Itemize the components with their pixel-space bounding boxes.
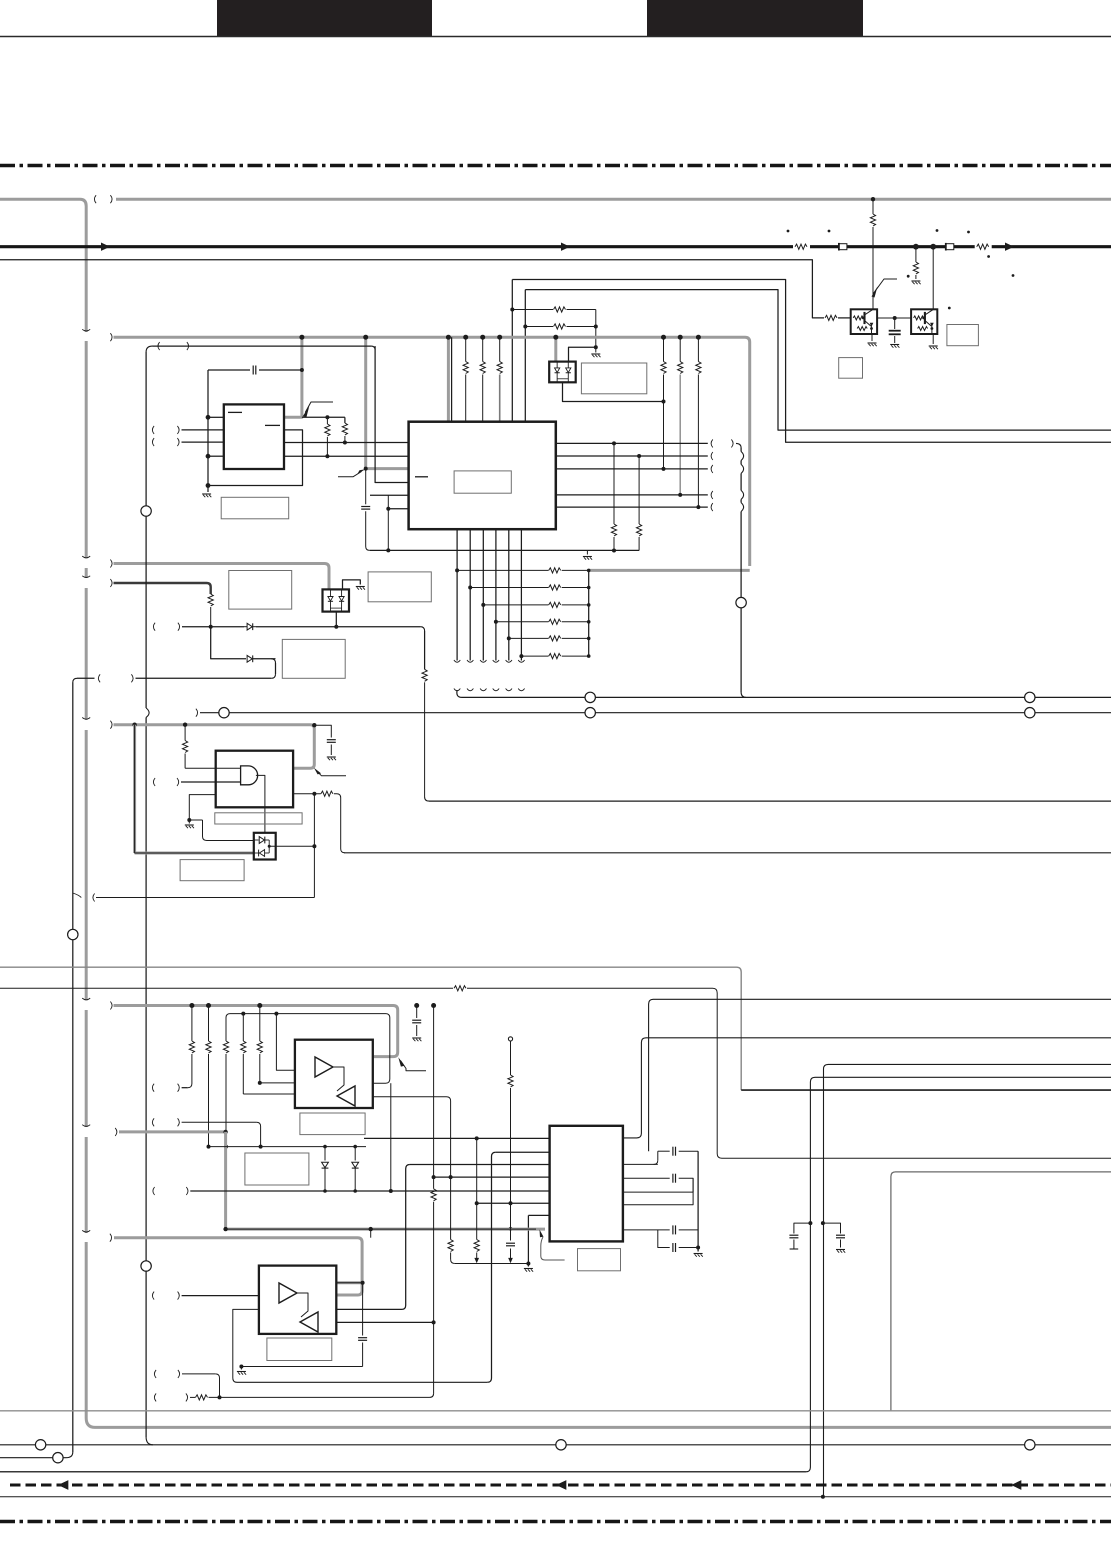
vertical link wire to connector stub [313,794,315,898]
label box for Q2 [839,358,863,379]
gray left vertical bus trunk [85,341,88,559]
wire y988 with resistor R22 [0,987,453,989]
junction dot diode row / U6 [334,625,338,629]
IC U1 [224,404,284,469]
junction dot R14 bottom [325,454,329,458]
junction dots on bus B2 [299,335,304,340]
feedback resistor R21 wire [293,793,321,795]
gray drop from B7 to bus B8 [224,1132,227,1229]
U2 right row 2 wire [556,455,708,457]
loop A to rail [679,1150,698,1152]
junction dot row3/R11 [662,467,666,471]
op-amp IC U9 [259,1266,336,1334]
U1 pin stub row 4 [208,455,224,457]
wire y1090 right portion [741,1089,1111,1091]
row wire into U3 pin 1 [364,1137,550,1139]
connector circle rail a [35,1440,45,1450]
IC U2 (main microcontroller) [409,422,556,530]
junction dot diode DA [323,1145,327,1149]
connector line L1 [457,690,1111,697]
wire row B from IC U2 top to right column [525,290,1111,431]
thick signal line (net P) across page [0,245,1111,248]
junction dot R27 bottom [258,1081,262,1085]
junction dot row2/R17 [637,454,641,458]
U2 bottom pin ladder [454,529,589,662]
wire y1064 from right edge down to bottom rail [824,1064,1111,1496]
arrow on dashed bus right [1011,1480,1021,1490]
loop wire from U8 pin down to row 5 [390,1083,392,1191]
AND gate output to photocoupler U7 [256,775,265,833]
resistor R4 vertical from bus B1 [872,199,874,214]
row wire into U3 at y1203 [477,1202,550,1204]
black connector rail y1445 [0,1444,1111,1446]
junction dot row4/R28 [449,1175,453,1179]
gray bus B5 with corner down to AND gate [110,721,112,729]
wire gray-node row right [302,416,345,418]
gray board line y1172 with corner down [891,1172,1111,1411]
bus B2 start hook [110,333,112,341]
junction dot pull-up rail bottom [594,345,598,349]
vertical return wire from row1 with hops [731,439,733,447]
pull-up resistor R7 [525,326,553,328]
wire thin net S from left edge to transistor Q2 input [0,260,824,318]
connector circle rail c [1025,1440,1035,1450]
fuse F1 in net P [839,244,847,250]
wire linking Q2 and Q3 bases [877,317,911,319]
row C wire [623,1178,693,1205]
label box for U4 [215,813,302,824]
ground for U3 pin 6 [527,1264,529,1267]
junction dot pin6 gnd node [526,1262,530,1266]
ground under U1 left rail [202,493,211,495]
junction of pull-up rail [595,310,597,348]
feed wire corner into U2 left pin 4 [375,346,409,482]
wire Q3 emitter to ground [932,334,934,344]
resistor R15 vertical [344,417,346,423]
gray bus B6 with corner into op-amp U8 [110,1002,112,1010]
connector circle rail b [556,1440,566,1450]
arrow on dashed bus left [58,1480,68,1490]
pull resistor R8 to U2 top pin 8 [465,337,467,361]
junction dot between Q2 and Q3 [893,316,897,320]
U9 output wire [336,1321,433,1323]
arrow on net P at left [101,243,110,251]
pull resistor R13 to U2 row 5 [697,337,699,361]
capacitor rail of U3 [697,1151,699,1247]
junction dot B7 / R25 [223,1130,227,1134]
input connector wire to R23 [152,1084,154,1092]
resistor R16 from row1 down to rail [613,443,615,524]
photocoupler U7 [254,833,276,860]
diode D3 [324,1147,326,1161]
left black trunk net V2 [72,683,74,930]
junction dot net P / Q2 feed [913,244,919,250]
junction dot rail bottom [696,1246,700,1250]
junction dot row/column 476 [475,1201,479,1205]
pull resistor R9 to U2 top pin 9 [482,337,484,361]
junction dot pin7 node [361,1281,365,1285]
label box for U8 [300,1113,365,1135]
U2 right row 4 wire [556,494,708,496]
junction dots on collector rail [587,569,591,573]
gray stub on U9 pin 7 [336,1281,362,1284]
connector circle L2 a [219,708,229,718]
resistor R19 [422,669,427,681]
input connector wire tap to diode row [152,1118,154,1126]
diode row corner down to resistor R19 [420,627,424,631]
junction dots on U1 left rail [206,415,211,420]
junction dot R15 bottom [343,441,347,445]
resistor R18 under bus B4 [208,594,213,606]
ground under Q2 [868,342,877,344]
junction dot diode row / R18 [209,625,213,629]
cap column down from pin7 node [362,1283,364,1336]
input wire with resistor R31 [186,1393,188,1401]
secondary diode branch wire [211,627,246,659]
column with test point circle and resistor R30 [508,1037,512,1041]
junction dots on bus B6 [189,1003,194,1008]
U3 left pin 6 wire [528,1214,549,1216]
label box lower diode branch [282,639,345,678]
wire y999 from right edge down to U3 capacitors [649,999,1111,1151]
pull resistor R10 to U2 top pin 10 [499,337,501,361]
arrow on net P at right [1005,243,1014,251]
resistor R26 column [241,1012,245,1016]
junction dot tap / diode wire [259,1145,263,1149]
wire to ground spur [241,1366,362,1368]
U7 output wire [269,845,314,847]
U2 right row 5 wire [556,506,708,508]
wire y1038 from right edge into U3 [623,1038,1111,1138]
pull resistor R11 feeding photocoupler return [663,337,665,361]
row wire into U3 pin 2 from column V4 [496,1151,550,1153]
U3 pin 6 ground branch [527,1215,529,1263]
capacitor C6 from bus B6 to ground [416,1006,418,1019]
U1 right pin loop to left rail [208,430,303,486]
U2 right row 3 wire [556,468,708,470]
wire Q2 emitter to ground [871,334,873,341]
connector circle on V2 [68,929,78,939]
connector pin hooks above L1 [454,689,460,691]
gray drop from B2 into IC U1 right side [285,337,302,417]
connector circle on net V1 [141,506,151,516]
black wire U9 pin 7 to cap column [336,1282,362,1284]
net V1 lower segment [145,717,147,1262]
stub B8 to B9 [370,1229,372,1238]
ground under R5 [911,280,920,282]
junction dot row4/V5 [432,1175,436,1179]
wire pull-up rail to photocoupler U5 cathode [569,347,596,361]
junction dot row5/R13 [696,505,700,509]
resistor R2 in net P [975,241,992,252]
junction dot decoupling pair right [821,1221,825,1225]
long output wire to right edge (row y801) [425,797,429,801]
branch wire to lower label [253,658,276,660]
junction dot B5 corner [312,723,316,727]
wire into U2 left pin 6 [388,508,408,510]
dashed return bus with arrows [10,1484,1111,1487]
wire U1 right output row to U2 with junctions [284,442,409,444]
resistor R20 from B5 to AND gate U4 [184,725,186,741]
AND gate IC U4 [216,751,293,808]
black wire under B8 [226,1228,536,1230]
junction dot row4/R12 [678,493,682,497]
U4 ground leg [189,795,215,820]
junction dot B5 / gray drop [132,723,136,727]
wire long vertical feed to U2 pin from top-left [153,345,372,347]
gray board outline y1411 [0,1410,1111,1412]
connector circle on return wire [736,597,746,607]
capacitor C12 [358,1337,367,1339]
black wire under gray drop [135,725,254,853]
junction dot B5 / R20 [183,723,187,727]
junction dot on bus B1 feeding R4 [871,197,875,201]
junction dot row1/column [475,1136,479,1140]
input connector wire to U1 pin 2 [152,426,154,434]
junction dot B8 left [223,1227,227,1231]
label box between B3 and B4 [229,571,292,610]
resistor R17 from row2 down to rail [638,456,640,524]
diode D4 [354,1147,356,1161]
pointer arrow to gray entry node [338,472,362,477]
junction dot pull-up row 2 [523,325,527,329]
transistor Q3 (digital transistor) [911,309,937,334]
label box right of U2 lower [368,572,431,602]
gray drop from B2 into IC U2 left side [366,337,409,468]
rail wire y550 [370,549,639,551]
dark feed bus B4 [110,579,112,587]
vertical wire into U2 top pin 12 [524,290,526,422]
junction dot cap column B8 [509,1227,513,1231]
crystal loop row A [623,1163,658,1165]
wire C2 to gray drop node [259,369,302,371]
gray bottom bus with corner from left trunk [86,1418,1111,1427]
junction dot net P / Q3 feed [930,244,936,250]
resistor R3 at Q2 input [825,315,837,320]
wire from node into Q2 base [872,294,874,309]
arrow on dashed bus middle [556,1480,566,1490]
resistor R14 vertical [326,417,328,424]
resistor R5 from net P junction to ground [915,247,917,262]
thin rail y1497 [0,1496,1111,1498]
resistor R1 in net P [793,241,810,252]
gray bus B7 short [115,1128,117,1136]
column V3 wire [336,1165,410,1310]
label box for U5 [581,363,646,394]
diode ladder wire y1147 [209,1146,367,1148]
input connector wire pair lower [178,1370,180,1378]
wire from U1 net to decoupling capacitor C2 [208,369,250,371]
pointer arrow to U1 right gray node [305,402,333,413]
hop of net V1 over line L2 [146,708,149,717]
capacitor C5 [823,1223,841,1233]
pointer arrow at U8 gray corner [401,1061,427,1071]
junction dot V5 / U9 output [432,1320,436,1324]
dash-dot section border top [0,164,1111,168]
gray drop from B2 to photocoupler U5 [554,337,557,361]
ground G9 [240,1367,242,1370]
capacitor C13 under gray entry [365,469,367,505]
capacitor C7 [672,1147,674,1156]
dash-dot section border bottom [0,1520,1111,1523]
diode D1 [244,621,256,632]
junction dot rail/column [821,1495,825,1499]
input connector wire to U1 pin 3 [152,438,154,446]
wire row A from IC U2 top to right column [512,280,1111,443]
input connector wire to U4 [153,778,155,786]
connector circle L2 b [585,708,595,718]
photocoupler U6 [323,589,350,611]
page header bar left [217,0,432,36]
ground under C1 [890,344,899,346]
connector circle L1 a [585,692,595,702]
transistor Q2 (digital transistor) [851,309,877,334]
capacitor C1 at Q2/Q3 node [894,318,896,329]
pointer arrow at U3 bottom [540,1230,544,1238]
column V4 wire [487,1152,495,1382]
resistor R25 column with top loop W13 into U8 pin [225,1054,227,1147]
return wire lower segment joining connector line L1 [740,608,742,692]
hook on feed wire [187,342,189,350]
column R28 resistor from U8 output pin [373,1097,451,1240]
ground stub on rail [586,551,588,555]
junction dot R24 / diode wire [207,1145,211,1149]
capacitor C2 [252,366,254,375]
diode-row wire [153,623,155,631]
junction dot D3 row5 [323,1189,327,1193]
label box for U7 [180,860,244,881]
gray drop from B5 to photocoupler U7 [133,725,136,853]
row E wire [658,1230,670,1248]
branch hook from V2 [73,893,82,898]
page header bar right [647,0,863,36]
junction dot gray entry U2 [364,467,368,471]
label box for U3 [578,1249,621,1271]
ground of U3 rail [697,1248,699,1252]
tiny reference dots top area [787,230,790,233]
wire into U2 left pin 5 [370,494,409,496]
junction dot ground spur [239,1365,243,1369]
net V2 lower segment [72,940,74,1452]
label box for U1 [221,497,289,519]
connector break on bus B1 [94,195,96,203]
junction dot row1/R16 [612,441,616,445]
gray bus B8 row [226,1228,545,1231]
connector circle L2 c [1025,708,1035,718]
U9 lower loop via V4 [233,1309,259,1378]
rail to ground [679,1247,698,1249]
pull-up resistor R6 [512,309,553,311]
junction dot R16 bottom [612,549,616,553]
row wire into U3 pin 5 from connector [153,1187,155,1195]
capacitor C8 [672,1174,674,1183]
wire y678 from left trunk [136,677,272,679]
long vertical wire net V1 [146,346,152,352]
break marks on left vertical bus [82,329,90,331]
thin rail y1472 [0,1471,806,1473]
arrow on net P at middle [561,243,570,251]
black short rail y1458 [0,1457,66,1459]
label box diode ladder [245,1153,309,1185]
IC U3 [550,1126,623,1242]
label box for U9 [267,1338,332,1361]
junction dot R25 bottom [224,1145,228,1149]
label box inside U2 [454,471,511,493]
capacitor C11 in column [506,1242,515,1244]
column R29 resistor with arrow end [476,1138,478,1239]
ladder collector rail [588,570,590,656]
U2 right row 1 wire [556,442,708,444]
gray power bus top (net B1) left segment with corner down [0,199,86,332]
branch from ground node to U7 anode [189,819,202,821]
ground under Q3 [929,345,938,347]
junction dot R31 wire [218,1395,222,1399]
junction dot diode DB [353,1145,357,1149]
connector circle on short rail [53,1453,63,1463]
resistor R23 column [191,1006,193,1042]
net V1 bottom segment into bottom rail [145,1271,147,1438]
AND gate input wire 1 from R20 [185,767,241,769]
diode D2 [247,655,252,662]
junction dot B8 mid [369,1227,373,1231]
junction dot R11 / U5 return [662,400,666,404]
left black trunk corner into wire y678 [73,678,77,682]
stub from W13 into U8 pin 3 [274,1012,278,1016]
capacitor C9 [672,1225,674,1234]
junction dot pull-up row 1 [510,308,514,312]
row wire into U3 pin 4 from column V5 [434,1176,550,1178]
gray bus B9 with wrap into U9 [110,1234,112,1242]
black wire beside gray drop [451,337,453,422]
junction dot decoupling pair left [808,1221,812,1225]
resistor R24 column [208,1006,210,1042]
pointer lever at U4 gray node [316,771,346,776]
gray return of bus B2 to resistor ladder [589,569,750,572]
junction dot row/cap column [509,1201,513,1205]
long output wire to right edge y852 [344,852,1111,854]
wire U5 output down and right to R11 node [563,382,664,401]
gray bus B2 across middle-top with corner down at right [114,337,750,566]
column V5 wire (bus feed to lower section) [433,1006,435,1189]
hook marks at V1 for lower connector wires [154,1370,156,1378]
label box for Q3 [947,325,979,346]
junction dot row/R14 [325,415,329,419]
board outline gray line y967 [0,967,741,1090]
pull resistor R12 to U2 row 4 [679,337,681,361]
row D wire [623,1229,670,1231]
connector circle 2 on net V1 [141,1261,151,1271]
vertical link at x388 [387,495,389,550]
op-amp IC U8 [295,1040,373,1108]
U1 pin stub row 1 [208,416,224,418]
capacitor C10 [672,1243,674,1252]
gray drop from B2 into U2 top pin 7 [447,337,450,422]
capacitor C3 from B5 corner to ground [314,725,331,737]
photocoupler U5 [549,362,576,383]
junction dot C2 / gray drop [300,368,304,372]
top border line [0,36,1111,38]
row wire into U3 pin 3 from column V3 [410,1164,550,1166]
connector circle L1 b [1025,692,1035,702]
U6 output wire down to diode row [335,612,337,627]
wire y1077 from right edge down to rail y1472 [0,1077,1111,1472]
pointer arrow to node above Q2 [874,279,897,293]
ground stub of pull-up rail [595,347,597,352]
left rail of U1 [207,370,209,492]
gray bus B3 to photocoupler U6 [110,560,112,568]
U6 cathode-side wire to ground [343,580,361,590]
loop B return [623,1178,693,1192]
